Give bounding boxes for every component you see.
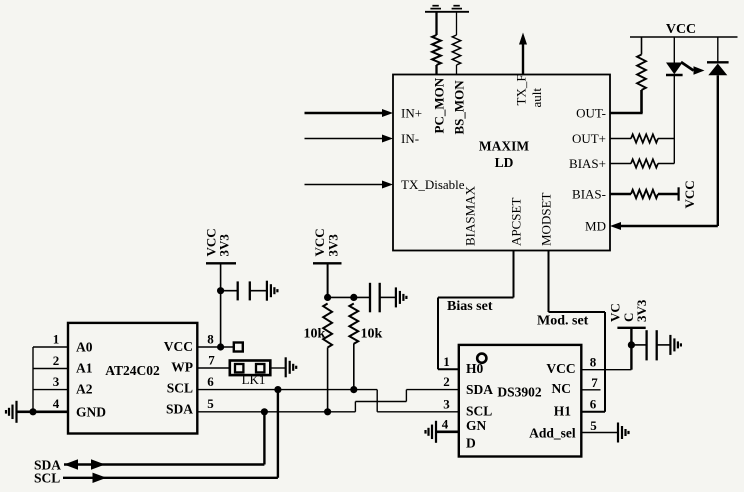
VCC rail top right bbox=[630, 36, 738, 38]
arrow into IN- pin bbox=[382, 135, 393, 143]
resistor R1 on PC_MON bbox=[432, 35, 441, 65]
svg-text:MD: MD bbox=[585, 219, 606, 234]
svg-text:TX_F: TX_F bbox=[514, 74, 529, 105]
wire BS_MON to resistor bbox=[456, 12, 458, 35]
wire VCC middle down bbox=[327, 263, 329, 297]
wire pin1 A0 bbox=[33, 346, 68, 348]
terminal square at pin8 bbox=[234, 343, 243, 352]
label VCC at BIAS- bbox=[682, 180, 697, 208]
pin label VCC DS3902 bbox=[546, 361, 575, 376]
svg-text:8: 8 bbox=[590, 354, 597, 369]
pin label IN+ bbox=[401, 106, 422, 121]
wire PC_MON to resistor bbox=[435, 12, 437, 35]
label MAXIM LD bbox=[479, 139, 529, 171]
pin number 3 DS3902 bbox=[443, 396, 450, 411]
wire into DS3902 pin6 bbox=[581, 411, 605, 413]
svg-text:1: 1 bbox=[53, 332, 60, 347]
arrow TX_Fault up bbox=[519, 33, 527, 45]
label Bias set bbox=[447, 299, 493, 314]
wire IN+ input bbox=[305, 112, 383, 114]
svg-text:10k: 10k bbox=[361, 327, 383, 342]
wire SCL to DS3902 pin3 bbox=[377, 411, 459, 413]
wire OUT- to R3 bbox=[610, 112, 643, 115]
wire LK1 to ground bbox=[270, 367, 285, 369]
wire R7 to SDA bbox=[327, 348, 329, 412]
svg-text:7: 7 bbox=[591, 375, 598, 390]
svg-text:IN-: IN- bbox=[401, 131, 419, 146]
wire pin4 GND bbox=[33, 410, 68, 413]
label Mod. set bbox=[537, 314, 589, 329]
wire resistor R1 to box bbox=[435, 65, 437, 75]
pin label H1 bbox=[554, 404, 572, 419]
pin number 5 DS3902 bbox=[590, 418, 597, 433]
label 10k R8 bbox=[361, 327, 383, 342]
pin label GND DS3902 bbox=[466, 418, 487, 451]
pin label BIAS+ bbox=[569, 156, 606, 171]
wire into DS3902 pin1 bbox=[438, 368, 459, 370]
label VCC rail bbox=[666, 22, 696, 37]
wire to capacitor C1 bbox=[221, 290, 237, 292]
pin number 1 bbox=[53, 332, 60, 347]
wire SDA middle jog bbox=[355, 401, 406, 403]
wire pin2 A1 bbox=[33, 368, 68, 370]
arrow into IN+ pin bbox=[382, 109, 393, 117]
pin label BIASMAX bbox=[463, 185, 478, 246]
pin label A2 bbox=[76, 381, 93, 396]
svg-text:NC: NC bbox=[552, 381, 572, 396]
wire pin8 VCC bbox=[197, 346, 233, 348]
svg-text:3V3: 3V3 bbox=[326, 234, 341, 257]
pin label SDA bbox=[166, 402, 193, 417]
svg-text:SCL: SCL bbox=[466, 404, 492, 419]
svg-text:5: 5 bbox=[207, 396, 214, 411]
label 10k R7 bbox=[304, 327, 326, 342]
svg-text:VCC: VCC bbox=[546, 361, 575, 376]
svg-text:OUT-: OUT- bbox=[576, 106, 606, 121]
svg-text:Mod. set: Mod. set bbox=[537, 314, 589, 329]
svg-text:IN+: IN+ bbox=[401, 106, 422, 121]
svg-text:D: D bbox=[466, 435, 476, 450]
VCC terminal bar at BIAS- bbox=[677, 187, 679, 200]
pin number 6 bbox=[207, 374, 214, 389]
pin number 1 DS3902 bbox=[443, 354, 450, 369]
laser driver U1 MAXIM LD box bbox=[393, 75, 610, 251]
wire R8 to SCL bbox=[353, 344, 355, 390]
pin number 8 bbox=[207, 332, 214, 347]
pin label APCSET bbox=[509, 198, 524, 246]
pin label IN- bbox=[401, 131, 419, 146]
arrow SDA left bbox=[64, 459, 78, 469]
wire OUT+ stub bbox=[610, 138, 631, 140]
wire pin5 Add_sel bbox=[581, 432, 617, 434]
svg-text:GN: GN bbox=[466, 418, 487, 433]
junction SCL bus bbox=[274, 386, 281, 393]
wire Mod. set horizontal bbox=[549, 311, 606, 313]
laser diode D1 bbox=[666, 63, 683, 76]
pin label SCL bbox=[167, 381, 193, 396]
light arrow from D1 to D2 bbox=[681, 62, 705, 75]
wire SDA bus down bbox=[263, 412, 265, 465]
svg-text:VCC: VCC bbox=[666, 22, 696, 37]
capacitor C3 bbox=[647, 330, 657, 360]
svg-text:ault: ault bbox=[529, 88, 544, 108]
ground at Add_sel bbox=[618, 423, 629, 443]
marker circle at H0 bbox=[477, 354, 486, 363]
wire Bias set horizontal bbox=[438, 297, 514, 299]
ground bars above BS_MON resistor bbox=[452, 6, 462, 9]
wire VCC rail to photodiode D2 bbox=[717, 37, 719, 62]
wire R5 to D1 node bbox=[658, 163, 674, 165]
wire D1 cathode down bbox=[673, 75, 675, 164]
svg-text:BS_MON: BS_MON bbox=[452, 80, 467, 135]
pin label H0 bbox=[466, 361, 484, 376]
resistor R5 on BIAS+ bbox=[631, 159, 658, 167]
label AT24C02 bbox=[105, 363, 160, 378]
capacitor C2 bbox=[370, 283, 380, 313]
svg-text:2: 2 bbox=[443, 374, 450, 389]
svg-text:VCC: VCC bbox=[164, 339, 193, 354]
ground at DS3902 GND bbox=[426, 421, 437, 443]
EEPROM U2 AT24C02 box bbox=[68, 323, 197, 434]
resistor R2 on BS_MON bbox=[452, 35, 460, 65]
svg-text:A1: A1 bbox=[76, 361, 93, 376]
pin label WP bbox=[171, 359, 193, 374]
svg-text:5: 5 bbox=[590, 418, 597, 433]
pin number 2 DS3902 bbox=[443, 374, 450, 389]
svg-text:LK1: LK1 bbox=[242, 372, 266, 387]
junction pullup R8 bbox=[350, 294, 357, 301]
arrow into TX_Disable pin bbox=[382, 181, 393, 189]
VCC 3V3 supply bar right bbox=[617, 327, 645, 329]
wire pin3 A2 bbox=[33, 389, 68, 391]
junction at C3 bbox=[628, 341, 635, 348]
ground at C1 bbox=[267, 281, 278, 301]
svg-text:10k: 10k bbox=[304, 327, 326, 342]
label SDA bus bbox=[34, 457, 61, 472]
wire Bias set down to H0 bbox=[437, 298, 439, 370]
wire C3 to ground bbox=[657, 344, 670, 346]
svg-text:8: 8 bbox=[207, 332, 214, 347]
svg-text:A0: A0 bbox=[76, 340, 93, 355]
svg-text:A2: A2 bbox=[76, 381, 93, 396]
svg-text:WP: WP bbox=[171, 359, 193, 374]
wire C2 to ground bbox=[380, 296, 395, 298]
wire R6 to VCC terminal bbox=[658, 193, 678, 195]
VCC 3V3 supply bar middle bbox=[313, 262, 342, 264]
svg-text:OUT+: OUT+ bbox=[572, 131, 606, 146]
arrow into MD pin bbox=[610, 222, 621, 230]
wire SCL step down bbox=[376, 390, 378, 412]
svg-text:PC_MON: PC_MON bbox=[432, 77, 447, 133]
wire D2 anode down to MD bbox=[717, 75, 719, 226]
ground rail above R1 R2 bbox=[425, 11, 469, 13]
svg-text:SDA: SDA bbox=[166, 402, 193, 417]
svg-text:APCSET: APCSET bbox=[509, 198, 524, 246]
wire pin6 SCL bbox=[197, 389, 377, 391]
svg-text:DS3902: DS3902 bbox=[497, 385, 542, 400]
pin label SCL DS3902 bbox=[466, 404, 492, 419]
ground at C2 bbox=[396, 287, 407, 307]
pin label A1 bbox=[76, 361, 93, 376]
wire R4 to D1 node bbox=[658, 138, 674, 140]
pin number 5 bbox=[207, 396, 214, 411]
wire resistor R2 to box bbox=[456, 65, 458, 75]
wire BIAS- stub bbox=[610, 193, 631, 195]
pin label NC bbox=[552, 381, 572, 396]
wire APCSET down bbox=[513, 251, 515, 298]
pin number 2 bbox=[53, 353, 60, 368]
svg-text:LD: LD bbox=[495, 155, 514, 170]
wire to capacitor C3 bbox=[631, 344, 646, 346]
svg-text:1: 1 bbox=[443, 354, 450, 369]
resistor R4 on OUT+ bbox=[631, 134, 658, 142]
pin number 4 bbox=[53, 396, 60, 411]
wire VCC supply right down bbox=[630, 328, 632, 370]
address bus tie vertical bbox=[32, 347, 34, 412]
junction pullup R7 bbox=[324, 294, 331, 301]
wire pin7 NC stub bbox=[581, 389, 600, 391]
svg-text:SCL: SCL bbox=[34, 471, 60, 486]
wire pullup node right bbox=[328, 296, 370, 298]
wire SDA bus horizontal bbox=[64, 463, 264, 465]
wire VCC rail to R3 bbox=[641, 37, 643, 55]
pin label A0 bbox=[76, 340, 93, 355]
wire C1 to ground bbox=[250, 290, 266, 292]
pin number 6 DS3902 bbox=[590, 396, 597, 411]
junction SDA bus bbox=[261, 408, 268, 415]
pin label PC_MON bbox=[432, 77, 447, 133]
wire VCC rail to LED D1 bbox=[673, 37, 675, 63]
wire SDA step up bbox=[354, 402, 356, 412]
svg-text:Bias set: Bias set bbox=[447, 299, 493, 314]
digital pot U3 DS3902 box bbox=[459, 345, 582, 457]
pin label TX_Disable bbox=[401, 177, 465, 192]
capacitor C1 bbox=[238, 281, 250, 300]
svg-text:SDA: SDA bbox=[466, 382, 493, 397]
pin label MODSET bbox=[539, 192, 554, 246]
pin number 7 DS3902 bbox=[591, 375, 598, 390]
svg-text:AT24C02: AT24C02 bbox=[105, 363, 160, 378]
wire TX_Fault output bbox=[522, 44, 524, 75]
wire pin4 GND DS3902 bbox=[437, 430, 459, 433]
svg-text:VCC: VCC bbox=[682, 180, 697, 208]
svg-text:MODSET: MODSET bbox=[539, 192, 554, 246]
pin number 3 bbox=[53, 374, 60, 389]
junction SCL pullup bbox=[350, 386, 357, 393]
wire R3 to OUT- node bbox=[640, 90, 643, 113]
svg-text:H1: H1 bbox=[554, 404, 572, 419]
pin label Add_sel bbox=[529, 426, 576, 441]
resistor R8 10k bbox=[349, 304, 358, 344]
junction at GND tie bbox=[29, 408, 36, 415]
pin label VCC bbox=[164, 339, 193, 354]
label VCC 3V3 left bbox=[204, 228, 232, 256]
ground at LK1 bbox=[286, 357, 297, 377]
wire SCL bus down bbox=[277, 390, 279, 478]
svg-text:6: 6 bbox=[590, 396, 597, 411]
resistor R6 on BIAS- bbox=[631, 190, 658, 198]
svg-text:MAXIM: MAXIM bbox=[479, 139, 529, 154]
wire pin8 VCC DS3902 bbox=[581, 369, 631, 371]
ground bars above PC_MON resistor bbox=[430, 6, 441, 9]
svg-text:BIAS-: BIAS- bbox=[572, 187, 606, 202]
svg-text:4: 4 bbox=[53, 396, 60, 411]
svg-text:TX_Disable: TX_Disable bbox=[401, 177, 465, 192]
resistor R7 10k bbox=[323, 304, 332, 348]
ground at AT24C02 GND bbox=[6, 401, 17, 423]
wire IN- input bbox=[305, 138, 383, 140]
pin label GND bbox=[76, 404, 106, 419]
junction SDA pullup bbox=[324, 408, 331, 415]
resistor R3 pull-up OUT- bbox=[637, 55, 646, 91]
svg-text:6: 6 bbox=[207, 374, 214, 389]
label VCC 3V3 middle bbox=[312, 228, 341, 256]
wire VCC supply down bbox=[220, 263, 222, 347]
pin label MD bbox=[585, 219, 606, 234]
pin number 7 bbox=[208, 353, 215, 368]
svg-text:H0: H0 bbox=[466, 361, 484, 376]
svg-text:SCL: SCL bbox=[167, 381, 193, 396]
svg-text:3: 3 bbox=[443, 396, 450, 411]
jumper LK1 bbox=[230, 361, 270, 376]
wire to ground left bbox=[17, 410, 33, 413]
wire pin7 WP bbox=[197, 367, 229, 369]
wire MD net bbox=[619, 225, 718, 227]
pin label OUT+ bbox=[572, 131, 606, 146]
wire BIAS+ stub bbox=[610, 163, 631, 165]
svg-text:GND: GND bbox=[76, 404, 106, 419]
pin number 8 DS3902 bbox=[590, 354, 597, 369]
svg-text:3V3: 3V3 bbox=[634, 299, 649, 322]
wire Mod. set down to H1 bbox=[604, 312, 606, 412]
ground at C3 bbox=[670, 335, 681, 355]
photodiode D2 bbox=[707, 62, 729, 75]
pin label SDA DS3902 bbox=[466, 382, 493, 397]
wire SDA to DS3902 pin2 bbox=[406, 389, 458, 391]
svg-text:Add_sel: Add_sel bbox=[529, 426, 576, 441]
arrow SDA right bbox=[91, 459, 105, 469]
pin number 4 DS3902 bbox=[442, 416, 449, 431]
svg-text:3V3: 3V3 bbox=[217, 234, 232, 257]
pin label BIAS- bbox=[572, 187, 606, 202]
wire SDA step up 2 bbox=[405, 390, 407, 402]
svg-text:3: 3 bbox=[53, 374, 60, 389]
wire TX_Disable input bbox=[305, 184, 383, 186]
svg-text:BIASMAX: BIASMAX bbox=[463, 185, 478, 246]
svg-text:2: 2 bbox=[53, 353, 60, 368]
label LK1 bbox=[242, 372, 266, 387]
arrow SCL right bbox=[93, 473, 107, 483]
pin label TX_Fault bbox=[514, 74, 545, 107]
junction at C1 bbox=[217, 287, 224, 294]
label SCL bus bbox=[34, 471, 60, 486]
wire MODSET down bbox=[548, 251, 550, 313]
VCC 3V3 supply bar left bbox=[206, 262, 236, 264]
svg-text:4: 4 bbox=[442, 416, 449, 431]
wire SCL bus horizontal bbox=[63, 477, 278, 479]
label VCC 3V3 right bbox=[608, 299, 650, 322]
pin label OUT- bbox=[576, 106, 606, 121]
pin label BS_MON bbox=[452, 80, 467, 135]
junction at VCC pin8 bbox=[217, 343, 224, 350]
wire pin5 SDA bbox=[197, 411, 355, 413]
svg-text:7: 7 bbox=[208, 353, 215, 368]
label DS3902 bbox=[497, 385, 542, 400]
svg-text:BIAS+: BIAS+ bbox=[569, 156, 606, 171]
